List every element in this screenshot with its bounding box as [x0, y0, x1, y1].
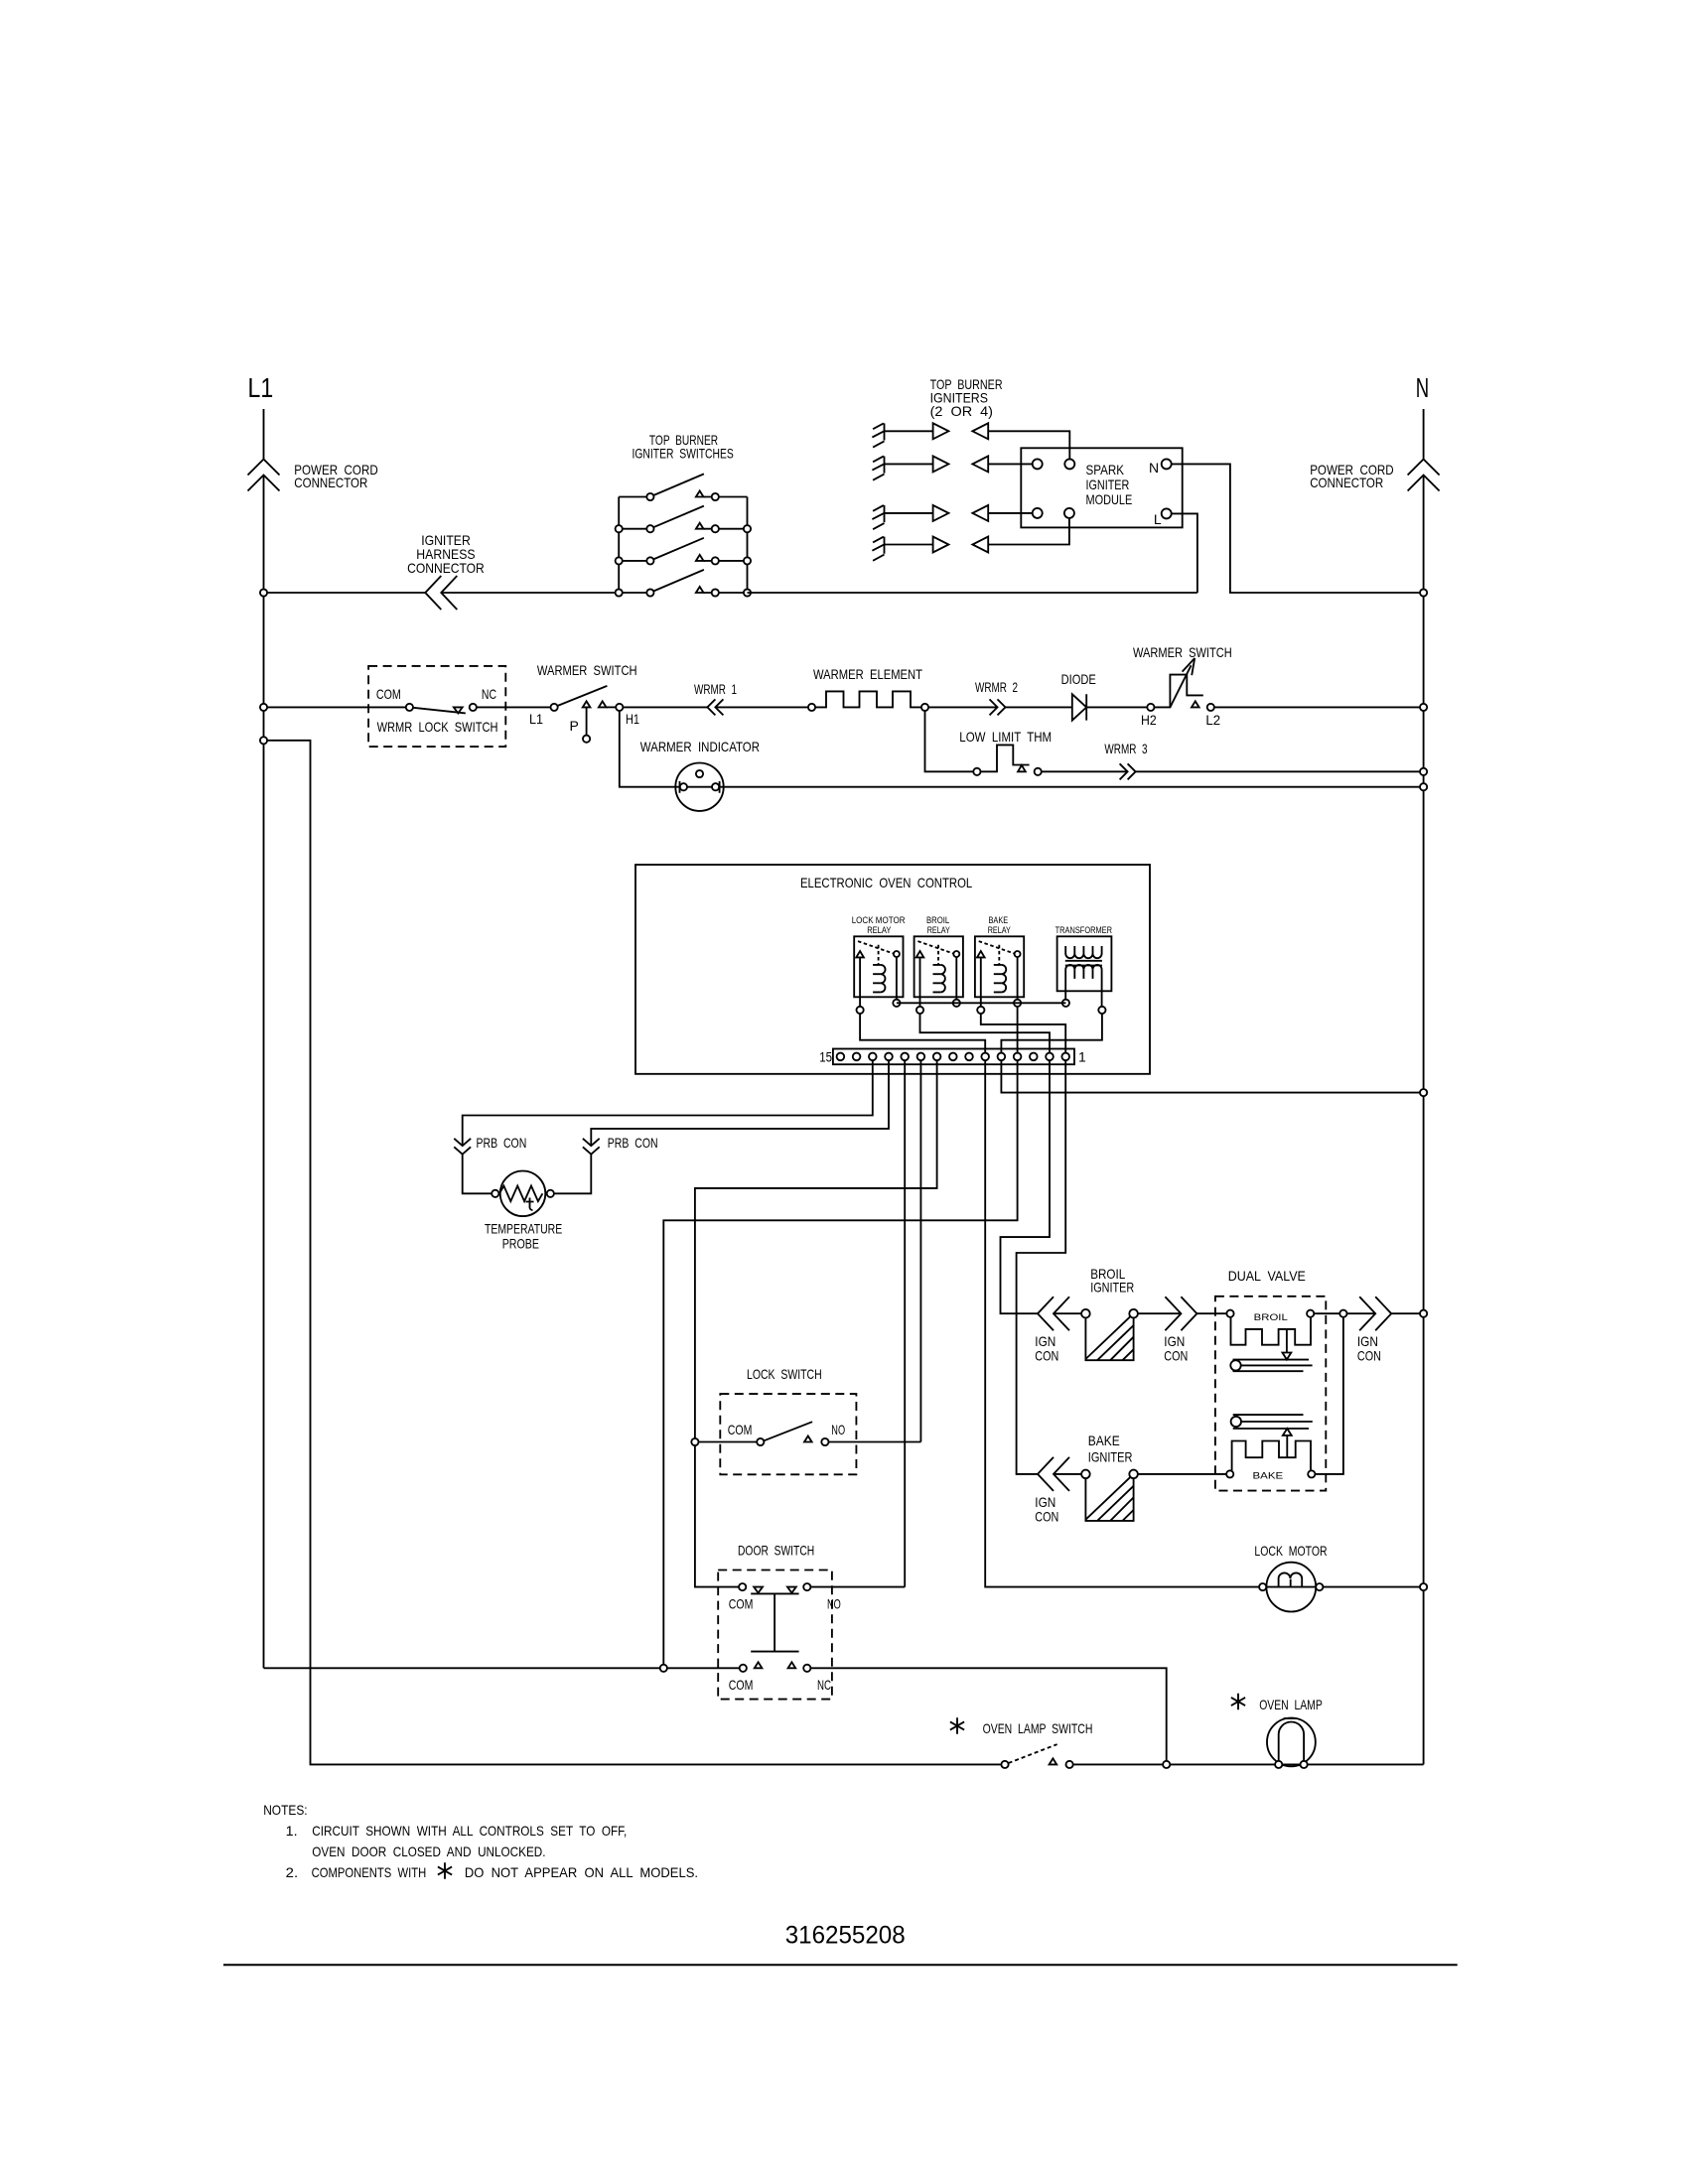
connector WRMR2 — [990, 699, 1006, 715]
wire: element to WRMR2 — [928, 706, 997, 708]
wire: PRB CON to probe right — [554, 1155, 591, 1194]
warmer indicator DS1 — [675, 763, 723, 811]
svg-text:IGNITER: IGNITER — [1090, 1280, 1134, 1296]
svg-text:BAKE: BAKE — [1088, 1433, 1120, 1448]
wire: PRB CON to probe left — [463, 1155, 492, 1194]
svg-text:L1: L1 — [529, 711, 543, 727]
lock motor M1 — [1266, 1563, 1316, 1612]
svg-text:CON: CON — [1035, 1348, 1058, 1364]
wire: bake relay coil to pin 1 — [981, 1014, 1065, 1052]
wire: low limit branch — [925, 707, 974, 771]
svg-text:CONNECTOR: CONNECTOR — [1310, 475, 1383, 490]
svg-text:WARMER INDICATOR: WARMER INDICATOR — [640, 739, 760, 754]
wire: pin 1 to bake igniter — [1017, 1060, 1066, 1474]
svg-text:(2 OR 4): (2 OR 4) — [930, 403, 993, 419]
spark igniter module U1 — [1021, 448, 1182, 527]
svg-text:SPARK: SPARK — [1086, 462, 1125, 478]
node: N lock motor row — [1420, 1583, 1427, 1590]
svg-text:CIRCUIT SHOWN WITH ALL CON: CIRCUIT SHOWN WITH ALL CONTROLS SET TO O… — [312, 1823, 627, 1839]
wire: door NC to lamp line — [810, 1668, 1166, 1761]
top burner igniter switch 1 — [619, 474, 747, 500]
broil relay K2 — [914, 936, 963, 1014]
connector IGN CON valve out — [1359, 1297, 1391, 1330]
svg-text:RELAY: RELAY — [927, 925, 950, 935]
wire: L2 to N rail — [1214, 706, 1424, 708]
connector IGN CON broil feed — [1038, 1297, 1069, 1330]
svg-text:CON: CON — [1357, 1348, 1381, 1364]
wire: lamp switch to junction — [1073, 1763, 1163, 1765]
svg-text:NOTES:: NOTES: — [263, 1802, 307, 1818]
wire: junction to out connector — [1347, 1312, 1376, 1314]
wire: diode to H2 — [1086, 706, 1147, 708]
svg-text:DUAL VALVE: DUAL VALVE — [1228, 1268, 1306, 1284]
wire: top rail left segment — [264, 592, 426, 594]
bake igniter E2 — [1081, 1470, 1090, 1479]
svg-text:MODULE: MODULE — [1086, 491, 1133, 507]
top burner igniter switch 4 — [619, 570, 747, 597]
wire: top rail from switches to module L drop — [748, 592, 1197, 594]
connector IGN CON bake feed — [1038, 1457, 1069, 1491]
top burner igniter 2 — [872, 457, 884, 480]
svg-text:DO NOT APPEAR ON ALL MODE: DO NOT APPEAR ON ALL MODELS. — [465, 1864, 698, 1880]
node: broil out junction — [1339, 1310, 1346, 1317]
power cord connector L1 — [248, 460, 280, 491]
svg-text:BAKE: BAKE — [1253, 1471, 1284, 1481]
top burner igniter 1 — [872, 423, 884, 447]
svg-text:IGNITER: IGNITER — [1088, 1449, 1133, 1465]
lock switch S4 — [720, 1394, 856, 1474]
broil igniter E1 — [1081, 1309, 1090, 1318]
svg-text:L1: L1 — [248, 372, 274, 403]
oven lamp DS2 — [1267, 1718, 1316, 1767]
wire: lock motor to N rail — [1323, 1586, 1423, 1588]
wire: top rail to igniter switches — [441, 592, 619, 594]
svg-text:NO: NO — [831, 1422, 845, 1437]
notes underline rule — [223, 1964, 1458, 1966]
svg-text:WARMER SWITCH: WARMER SWITCH — [537, 662, 637, 678]
wire: pin 4 to door switch lower COM — [663, 1060, 1017, 1665]
door switch S5 — [718, 1570, 832, 1700]
svg-text:LOCK MOTOR: LOCK MOTOR — [852, 915, 906, 925]
node: lamp line junction — [1163, 1761, 1170, 1768]
wire: pin 12 to probe connector — [591, 1060, 889, 1146]
top burner igniter switch 3 — [619, 538, 747, 565]
svg-text:COM: COM — [729, 1596, 754, 1612]
svg-text:LOCK MOTOR: LOCK MOTOR — [1254, 1543, 1327, 1559]
svg-text:NO: NO — [827, 1596, 841, 1612]
wire: lock COM down to door COM — [695, 1445, 739, 1587]
node: door lower COM junction — [660, 1665, 667, 1672]
svg-text:1: 1 — [1078, 1049, 1086, 1065]
wire: door lower line from L1 — [264, 1667, 740, 1669]
svg-text:COM: COM — [728, 1422, 753, 1437]
wire: pin 6 to lock motor — [985, 1060, 1259, 1586]
node: N pin5 row — [1420, 1089, 1427, 1096]
wire: oven lamp to N rail — [1308, 1763, 1424, 1765]
node: N igniter row — [1420, 1310, 1427, 1317]
svg-text:OVEN LAMP SWITCH: OVEN LAMP SWITCH — [983, 1720, 1093, 1736]
wrmr lock switch S1 — [368, 666, 505, 747]
warmer switch S2 (L1-P-H1) — [551, 704, 558, 711]
asterisk: note 2 — [438, 1862, 452, 1878]
wire: WRMR3 to N rail — [1136, 770, 1424, 772]
svg-text:RELAY: RELAY — [867, 925, 891, 935]
wire: wrmr lock switch to warmer switch — [477, 706, 551, 708]
svg-text:PRB CON: PRB CON — [608, 1135, 658, 1151]
bake valve orifice — [1231, 1417, 1241, 1427]
node: L1 warmer row — [260, 704, 267, 711]
electronic oven control box — [635, 865, 1150, 1074]
power cord connector N — [1408, 460, 1440, 491]
svg-text:CON: CON — [1035, 1509, 1058, 1525]
svg-text:LOW LIMIT THM: LOW LIMIT THM — [959, 729, 1052, 745]
wire: warmer row from L1 — [264, 706, 406, 708]
temperature probe RT1 — [500, 1171, 546, 1217]
svg-text:BAKE: BAKE — [989, 915, 1009, 925]
svg-text:OVEN LAMP: OVEN LAMP — [1259, 1697, 1323, 1712]
svg-text:1.: 1. — [286, 1823, 298, 1839]
wire: out connector to N rail — [1391, 1312, 1423, 1314]
lock motor relay K1 — [854, 936, 903, 1014]
svg-text:WARMER ELEMENT: WARMER ELEMENT — [813, 666, 922, 682]
wire: pin 10 to lock switch NO — [919, 1060, 921, 1441]
wire: transformer right lead — [1101, 970, 1103, 1007]
oven lamp switch S6 — [1001, 1761, 1008, 1768]
warmer element R1 — [808, 704, 815, 711]
wire: to bake igniter — [1054, 1473, 1081, 1475]
svg-text:NC: NC — [817, 1677, 831, 1693]
connector WRMR1 — [707, 699, 723, 715]
svg-text:NC: NC — [482, 686, 496, 702]
node: lock switch COM junction — [691, 1438, 698, 1445]
svg-text:CONNECTOR: CONNECTOR — [407, 560, 485, 576]
power rail L1 — [263, 409, 265, 1668]
wire: pin 2 to broil igniter — [1001, 1060, 1051, 1313]
svg-text:CONNECTOR: CONNECTOR — [294, 475, 367, 490]
top burner igniter 3 — [872, 505, 884, 529]
low limit thermostat THM1 — [973, 768, 980, 775]
svg-text:TRANSFORMER: TRANSFORMER — [1055, 925, 1113, 935]
svg-text:OVEN DOOR CLOSED AND UNLOC: OVEN DOOR CLOSED AND UNLOCKED. — [312, 1843, 545, 1859]
svg-text:COMPONENTS WITH: COMPONENTS WITH — [312, 1864, 427, 1880]
wire: module L drop — [1172, 513, 1197, 593]
svg-text:PROBE: PROBE — [502, 1236, 539, 1252]
svg-text:H2: H2 — [1141, 712, 1157, 728]
wire: bake igniter to valve — [1138, 1473, 1226, 1475]
asterisk: oven lamp — [1231, 1694, 1245, 1709]
svg-text:15: 15 — [819, 1049, 832, 1065]
wire: WRMR1 to warmer element — [715, 706, 808, 708]
bake valve solenoid — [1226, 1470, 1233, 1477]
svg-text:N: N — [1416, 372, 1429, 403]
svg-text:ELECTRONIC OVEN CONTROL: ELECTRONIC OVEN CONTROL — [800, 875, 972, 890]
node: L1 top rail — [260, 589, 267, 596]
wire: lamp feed from L1 — [264, 741, 1002, 1765]
diode D1 — [1072, 694, 1086, 720]
svg-text:WRMR 3: WRMR 3 — [1104, 741, 1147, 756]
top burner igniter switch 2 — [619, 506, 747, 533]
connector IGN CON broil out — [1165, 1297, 1196, 1330]
svg-text:DOOR SWITCH: DOOR SWITCH — [738, 1543, 814, 1559]
wire: broil valve out — [1314, 1312, 1339, 1314]
wire: WRMR2 to diode — [1006, 706, 1072, 708]
wire: igniter switch right bus — [747, 497, 749, 594]
power rail N — [1423, 409, 1425, 1764]
connector WRMR3 — [1120, 763, 1136, 779]
svg-text:BROIL: BROIL — [1254, 1312, 1288, 1322]
node: N indicator row — [1420, 783, 1427, 790]
EOC terminal strip — [833, 1049, 1074, 1065]
svg-text:WRMR LOCK SWITCH: WRMR LOCK SWITCH — [377, 719, 498, 735]
connector PRB CON left — [454, 1139, 471, 1155]
wire: module N to rail — [1172, 464, 1424, 593]
wire: bake relay output to pin 4 — [1017, 1007, 1019, 1052]
wire: transformer left lead — [1064, 970, 1066, 1000]
broil valve solenoid — [1226, 1310, 1233, 1317]
wire: pin 13 to probe connector — [463, 1060, 873, 1146]
svg-text:TEMPERATURE: TEMPERATURE — [485, 1221, 562, 1237]
wire: lock switch NO to pin 10 — [829, 1441, 921, 1443]
top burner igniter 4 — [872, 537, 884, 561]
wire: pin 9 to lock switch COM — [695, 1060, 937, 1438]
svg-text:L2: L2 — [1205, 712, 1220, 728]
svg-text:LOCK SWITCH: LOCK SWITCH — [747, 1366, 822, 1382]
module terminal L — [1162, 508, 1172, 518]
svg-text:2.: 2. — [286, 1864, 298, 1880]
node: N WRMR3 row — [1420, 768, 1427, 775]
wire: relay output bus — [897, 1002, 1066, 1004]
wire: H1 drop to warmer indicator — [620, 711, 680, 787]
wire: door NO to pin 11 — [810, 1586, 905, 1588]
wire: broil igniter to valve connector — [1138, 1312, 1182, 1314]
wire: pin 11 to door switch NO — [904, 1060, 906, 1586]
wire: junction down to bake valve — [1315, 1317, 1343, 1474]
broil valve orifice — [1230, 1360, 1240, 1370]
node: warmer element junction — [921, 704, 928, 711]
svg-text:WRMR 2: WRMR 2 — [975, 679, 1018, 695]
node: L1 lamp feed — [260, 737, 267, 744]
wire: to broil igniter — [1054, 1312, 1081, 1314]
svg-text:RELAY: RELAY — [988, 925, 1011, 935]
wire: into dual valve broil — [1196, 1312, 1226, 1314]
igniter harness connector — [425, 576, 457, 610]
wire: igniter switch left bus — [618, 497, 620, 594]
svg-text:P: P — [570, 718, 579, 734]
warmer switch S3 (H2-L2) — [1147, 704, 1154, 711]
svg-text:WRMR 1: WRMR 1 — [694, 681, 737, 697]
wire: low limit to WRMR3 — [1042, 770, 1128, 772]
wire: junction to oven lamp — [1170, 1763, 1275, 1765]
svg-text:COM: COM — [376, 686, 401, 702]
wire: lock relay coil to pin 6 — [860, 1014, 985, 1052]
dual valve box — [1215, 1297, 1326, 1491]
svg-text:H1: H1 — [626, 711, 639, 727]
svg-text:PRB CON: PRB CON — [477, 1135, 527, 1151]
svg-text:N: N — [1149, 460, 1159, 476]
node: N top rail — [1420, 589, 1427, 596]
svg-text:BROIL: BROIL — [926, 915, 949, 925]
bake relay K3 — [975, 936, 1024, 1014]
wire: broil relay coil to pin 2 — [920, 1014, 1051, 1052]
wire: H1 to WRMR1 — [623, 706, 707, 708]
svg-text:WARMER SWITCH: WARMER SWITCH — [1133, 644, 1232, 660]
transformer T1 — [1057, 936, 1112, 991]
svg-text:316255208: 316255208 — [785, 1922, 906, 1950]
svg-text:DIODE: DIODE — [1061, 671, 1096, 687]
svg-text:L: L — [1154, 511, 1162, 527]
svg-text:IGNITER: IGNITER — [1086, 477, 1130, 492]
node: N warmer row — [1420, 704, 1427, 711]
svg-text:IGNITER SWITCHES: IGNITER SWITCHES — [633, 446, 734, 462]
svg-text:COM: COM — [729, 1677, 754, 1693]
module terminal N — [1162, 459, 1172, 469]
asterisk: oven lamp switch — [950, 1717, 964, 1733]
wire: transformer to pin 5 — [1001, 1014, 1102, 1052]
wire: pin 5 to N rail — [1001, 1060, 1423, 1092]
connector PRB CON right — [583, 1139, 600, 1155]
wire: warmer indicator to N rail — [719, 786, 1423, 788]
svg-text:CON: CON — [1164, 1348, 1188, 1364]
